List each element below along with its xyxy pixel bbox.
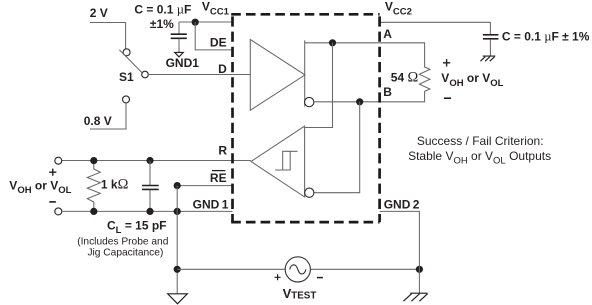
svg-text:54 Ω: 54 Ω — [391, 70, 419, 86]
hysteresis symbol — [275, 151, 297, 170]
wire DE — [195, 22, 232, 50]
svg-text:RE: RE — [210, 171, 227, 185]
label minus right — [444, 97, 451, 99]
wire B to receiver bubble — [314, 102, 360, 193]
node junction bottom rail right — [416, 266, 423, 273]
ground left triangle — [168, 294, 188, 304]
svg-text:S1: S1 — [119, 70, 134, 84]
wire RE — [177, 185, 232, 187]
svg-text:C = 0.1 µF ± 1%: C = 0.1 µF ± 1% — [502, 29, 590, 43]
node junction RE — [174, 182, 181, 189]
svg-text:A: A — [383, 27, 392, 41]
wire left vertical to ground — [176, 186, 178, 294]
wire D — [148, 74, 250, 76]
svg-text:CL = 15 pF: CL = 15 pF — [107, 218, 167, 236]
wire GND2 — [380, 211, 420, 293]
label + left — [49, 169, 56, 176]
node junction B — [356, 98, 363, 105]
wire B — [314, 101, 425, 103]
node 0.8V contact circle — [123, 96, 130, 103]
svg-text:D: D — [218, 62, 227, 76]
ground C2 hatched — [480, 56, 495, 61]
capacitor C1 — [178, 22, 180, 34]
node 2V contact circle — [123, 49, 130, 56]
wire A to receiver input — [305, 43, 333, 128]
svg-text:GND 1: GND 1 — [193, 197, 229, 211]
svg-text:1 kΩ: 1 kΩ — [101, 176, 129, 192]
svg-text:C = 0.1 µF: C = 0.1 µF — [134, 3, 191, 17]
wire bottom rail right segment — [311, 268, 419, 270]
node junction gnd-vert — [174, 208, 181, 215]
wire driver output bar — [304, 40, 306, 106]
svg-text:(Includes Probe and: (Includes Probe and — [77, 237, 169, 248]
label + vtest — [275, 274, 281, 280]
svg-text:Stable VOH or VOL Outputs: Stable VOH or VOL Outputs — [408, 149, 551, 166]
svg-text:VOH or VOL: VOH or VOL — [441, 71, 503, 89]
op-amp driver triangle — [250, 40, 305, 111]
wire A — [305, 42, 425, 44]
resistor 54 ohm — [419, 43, 430, 102]
ground GND1 arrow — [175, 52, 184, 57]
capacitor C2 — [483, 34, 499, 36]
svg-text:VOH or VOL: VOH or VOL — [9, 179, 71, 197]
node junction gnd-cap — [146, 208, 153, 215]
node junction R-top-resistor — [90, 157, 97, 164]
terminal circle left top — [55, 157, 62, 164]
svg-text:±1%: ±1% — [150, 17, 174, 31]
svg-text:2 V: 2 V — [90, 6, 108, 20]
dashed device box — [231, 13, 379, 16]
node S1 pivot circle — [142, 71, 149, 78]
label + right — [443, 59, 450, 66]
op-amp receiver triangle — [251, 126, 305, 197]
label minus left — [49, 201, 56, 203]
wire VCC1 — [179, 21, 233, 23]
RE overline — [212, 170, 225, 172]
node junction R-top-cap — [146, 157, 153, 164]
svg-text:GND 2: GND 2 — [384, 197, 420, 211]
capacitor CL — [149, 161, 151, 185]
node junction A — [329, 39, 336, 46]
wire GND1 rail — [62, 210, 233, 212]
svg-text:R: R — [218, 144, 227, 158]
switch S1 arm — [119, 50, 142, 73]
label minus vtest — [317, 277, 323, 279]
node receiver bubble — [305, 188, 314, 197]
wire R — [62, 160, 251, 162]
svg-text:VCC2: VCC2 — [385, 0, 412, 17]
terminal circle left bottom — [55, 208, 62, 215]
svg-text:Jig Capacitance): Jig Capacitance) — [87, 248, 163, 259]
node junction VCC1 — [192, 19, 199, 26]
svg-text:B: B — [383, 85, 392, 99]
wire bottom rail left segment — [177, 268, 285, 270]
svg-text:0.8 V: 0.8 V — [84, 114, 112, 128]
svg-text:GND1: GND1 — [166, 56, 200, 70]
source VTEST sine — [290, 265, 306, 274]
svg-text:DE: DE — [210, 36, 227, 50]
wire 0.8V stub — [90, 103, 126, 129]
node junction gnd-resistor — [90, 208, 97, 215]
node driver inverting bubble — [305, 97, 314, 106]
svg-text:VTEST: VTEST — [283, 286, 317, 302]
ground right hatched — [403, 293, 427, 301]
wire 2V stub — [90, 23, 126, 49]
node junction bottom rail left — [174, 266, 181, 273]
source VTEST circle — [285, 257, 310, 282]
svg-text:Success / Fail Criterion:: Success / Fail Criterion: — [417, 134, 544, 148]
resistor R1 1 kOhm — [87, 161, 100, 212]
svg-text:VCC1: VCC1 — [202, 0, 230, 17]
wire VCC2 — [380, 22, 491, 34]
